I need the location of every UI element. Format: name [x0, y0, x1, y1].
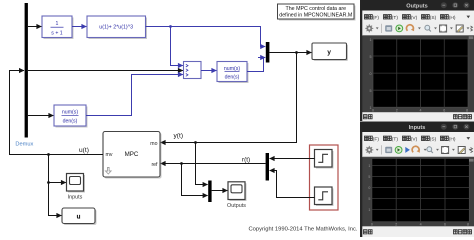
- svg-text:6: 6: [444, 223, 446, 227]
- wire: Demux out1 to TF1: [28, 26, 41, 28]
- annotation red box around steps: [310, 145, 339, 210]
- svg-text:u: u: [77, 213, 81, 220]
- svg-text:5: 5: [370, 55, 372, 59]
- svg-text:defined in MPCNONLINEAR.M: defined in MPCNONLINEAR.M: [279, 13, 352, 19]
- node junction on ref wire: [180, 162, 183, 165]
- svg-text:1: 1: [368, 164, 370, 168]
- transfer function TF3 num(s)/den(s): [217, 62, 249, 84]
- mux Mux1 (3-input block): [184, 62, 202, 79]
- wire: MPC mv left, up, into Demux: [10, 71, 104, 155]
- svg-text:0: 0: [368, 186, 370, 190]
- transfer function TF1 1/(s+1): [42, 16, 74, 39]
- svg-text:ref: ref: [151, 162, 158, 168]
- title bar: [360, 0, 474, 11]
- svg-text:0: 0: [370, 72, 372, 76]
- wire: Mux3 to Outputs scope: [212, 190, 228, 192]
- svg-text:8: 8: [467, 223, 469, 227]
- mux Mux2b (ref mux bar): [266, 153, 269, 181]
- wire: Demux out3 to TF2: [28, 115, 53, 117]
- node junction on mo wire: [194, 141, 197, 144]
- menu bar: [362, 132, 474, 143]
- wire: branch to Inputs scope: [49, 182, 66, 184]
- svg-text:mo: mo: [150, 141, 157, 147]
- svg-text:Outputs: Outputs: [227, 203, 246, 209]
- svg-text:5: 5: [368, 197, 370, 201]
- toolbar: [362, 22, 474, 36]
- annotation note box: [278, 4, 356, 21]
- svg-text:8: 8: [466, 109, 468, 113]
- wire: Fcn out along top to Mux2 top input: [146, 27, 266, 47]
- block MPC controller: [103, 132, 162, 179]
- svg-text:Outputs: Outputs: [406, 3, 427, 9]
- wire: junction down with branch to Inputs scope: [49, 155, 62, 216]
- svg-text:(H): (H): [449, 15, 456, 21]
- svg-text:The MPC control data are: The MPC control data are: [285, 6, 346, 12]
- svg-text:4: 4: [420, 109, 422, 113]
- svg-text:(S): (S): [430, 15, 437, 21]
- svg-text:6: 6: [443, 109, 445, 113]
- menu bar: [362, 11, 474, 22]
- demux Demux (thick bar): [15, 3, 33, 147]
- svg-text:s + 1: s + 1: [51, 30, 63, 36]
- wire: ref junction down to Mux3 bottom input: [182, 164, 208, 196]
- mux Mux2 (y mux bar): [266, 42, 270, 63]
- svg-text:4: 4: [420, 223, 422, 227]
- axes: [373, 39, 468, 107]
- svg-text:1: 1: [370, 38, 372, 42]
- wire: mo junction down to Mux3 top input: [196, 143, 208, 185]
- svg-text:Inputs: Inputs: [409, 125, 426, 131]
- svg-text:y(t): y(t): [174, 132, 184, 139]
- svg-text:den(s): den(s): [63, 119, 78, 125]
- wire: TF1 to Fcn: [72, 26, 86, 28]
- svg-text:den(s): den(s): [225, 75, 240, 81]
- svg-text:(F): (F): [373, 15, 380, 21]
- status bar: [362, 226, 474, 237]
- svg-text:5: 5: [368, 175, 370, 179]
- window frame: [360, 122, 474, 238]
- node junction on y wire: [295, 51, 298, 54]
- outport u: [62, 208, 97, 225]
- node junction on mv wire: [47, 153, 50, 156]
- outport y: [312, 43, 348, 61]
- wire: junction down to Mux1 top input: [171, 27, 183, 66]
- wire: y junction down and left to MPC mo: [161, 53, 297, 143]
- plot background: [362, 157, 474, 226]
- svg-text:mv: mv: [106, 152, 113, 158]
- svg-text:5: 5: [370, 89, 372, 93]
- svg-text:(H): (H): [449, 137, 456, 143]
- svg-text:u(t): u(t): [79, 147, 89, 154]
- svg-text:(V): (V): [411, 15, 418, 21]
- wire: TF3 out up to Mux2 bottom input: [247, 58, 264, 72]
- svg-text:num(s): num(s): [224, 66, 240, 72]
- title bar: [360, 122, 474, 133]
- svg-text:(S): (S): [430, 137, 437, 143]
- mux Mux3 (outputs mux bar): [208, 181, 211, 203]
- plot background: [362, 36, 474, 112]
- svg-text:r(t): r(t): [242, 157, 250, 164]
- axes: [372, 159, 469, 222]
- svg-text:0: 0: [371, 223, 373, 227]
- node junction on Fcn output: [169, 25, 172, 28]
- svg-text:(F): (F): [373, 137, 380, 143]
- svg-text:num(s): num(s): [62, 110, 78, 116]
- svg-text:1: 1: [368, 208, 370, 212]
- svg-text:u(1)+ 2*u(1)^3: u(1)+ 2*u(1)^3: [99, 25, 133, 31]
- wire: Mux2 to y outport: [269, 52, 311, 54]
- svg-text:0: 0: [372, 109, 374, 113]
- svg-text:2: 2: [395, 223, 397, 227]
- svg-text:1: 1: [56, 21, 59, 27]
- wire: ref mux to MPC ref: [161, 163, 266, 165]
- wire: Mux1 to TF3: [201, 70, 216, 72]
- svg-text:(T): (T): [392, 15, 399, 21]
- wire: Step2 to ref mux bottom input: [270, 171, 315, 198]
- status bar: [362, 112, 474, 121]
- window frame: [360, 0, 474, 121]
- svg-text:(V): (V): [411, 137, 418, 143]
- transfer function TF2 num(s)/den(s): [54, 105, 88, 128]
- svg-text:2: 2: [396, 109, 398, 113]
- step source Step1: [315, 150, 334, 169]
- wire: Step1 to ref mux top input: [270, 158, 315, 160]
- scope Inputs: [67, 174, 86, 201]
- scope Outputs: [227, 182, 246, 209]
- step source Step2: [315, 187, 334, 206]
- svg-text:Copyright 1990-2014 The MathWo: Copyright 1990-2014 The MathWorks, Inc.: [248, 227, 357, 233]
- svg-text:(T): (T): [392, 137, 399, 143]
- svg-text:Demux: Demux: [15, 141, 33, 147]
- fcn block u(1)+2*u(1)^3: [87, 16, 147, 39]
- svg-text:Inputs: Inputs: [68, 195, 83, 201]
- wire: Demux out2 long line to Mux1 middle input: [28, 70, 183, 72]
- wire: TF2 out up to Mux1 bottom input: [86, 75, 183, 116]
- svg-text:MPC: MPC: [125, 151, 139, 158]
- toolbar: [362, 143, 474, 157]
